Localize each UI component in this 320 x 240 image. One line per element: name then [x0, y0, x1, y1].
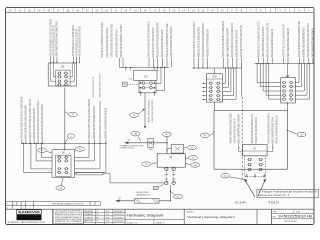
- valve 07: [243, 145, 268, 156]
- svg-text:HOSE CLAMP FITTING HOSE CLAMP: HOSE CLAMP FITTING HOSE CLAMP FITTING HO…: [307, 23, 310, 57]
- wire stub into 08: [79, 57, 81, 63]
- valve 017 port r2R: [149, 87, 153, 90]
- drain mark: [263, 174, 265, 177]
- svg-text:B1: B1: [154, 188, 156, 190]
- arrow to note left: [245, 180, 255, 197]
- left manifold line: [22, 142, 106, 144]
- valve 016 port r5R: [216, 98, 220, 101]
- svg-text:CHECK: CHECK: [84, 217, 93, 219]
- svg-text:PRESSURE FEED LINE PRESSURE FE: PRESSURE FEED LINE PRESSURE FEED LIN: [272, 29, 274, 57]
- svg-text:SWIVEL CONN 90 ADAPTER SWIVEL: SWIVEL CONN 90 ADAPTER SWIVEL CONN 90 AD…: [25, 105, 28, 139]
- svg-text:HOSE ASSY 25L GAUGE PORT HOSE: HOSE ASSY 25L GAUGE PORT HOSE ASSY 25L: [78, 26, 81, 56]
- wire stub into 08: [53, 57, 55, 63]
- balloon 16: [200, 133, 209, 138]
- bus above 015: [254, 63, 313, 65]
- svg-text:PRESSING CYLINDER HOSE PRESSIN: PRESSING CYLINDER HOSE PRESSING CYLIN: [252, 114, 254, 143]
- leader balloon 11: [287, 130, 296, 134]
- 015 right wire: [295, 94, 307, 96]
- valve 04 port r4R: [64, 171, 68, 174]
- b-box: [153, 186, 158, 189]
- valve 08 port r1L: [57, 72, 61, 75]
- valve 015: [281, 78, 296, 103]
- drawing number block: [272, 212, 314, 214]
- svg-text:MANIFOLD MOUNT LINE MANIFOLD: MANIFOLD MOUNT LINE MANIFOLD: [148, 99, 151, 122]
- 016 left stub: [203, 99, 207, 101]
- 016 left stub: [203, 86, 207, 88]
- svg-text:HOSE ASSY 25L SWING CYL HOSE A: HOSE ASSY 25L SWING CYL HOSE ASSY 25L SW…: [193, 21, 196, 57]
- valve 016 port r3L: [209, 90, 213, 93]
- valve 015 port r2L: [282, 85, 286, 88]
- svg-text:BOOM FEED LINE 25L BOOM FEED L: BOOM FEED LINE 25L BOOM FEED LINE 25L BO…: [42, 104, 44, 139]
- valve 017 port r2L: [141, 87, 145, 90]
- balloon 17: [130, 113, 139, 118]
- hose box: [134, 199, 159, 204]
- svg-text:Vertical pressing diagram: Vertical pressing diagram: [187, 215, 236, 219]
- wire 017 drop: [144, 93, 146, 128]
- svg-text:PRESSING CYLINDER HOSE PRESSIN: PRESSING CYLINDER HOSE PRESSING CYLINDE: [230, 113, 232, 143]
- svg-text:HOSE ASSY 25L FEED HOSE ASSY 2: HOSE ASSY 25L FEED HOSE ASSY 25L FEED HO…: [222, 21, 225, 57]
- valve 016 port r4R: [216, 94, 220, 97]
- junction 08 line: [64, 143, 65, 144]
- leader to balloon 18: [65, 112, 69, 114]
- 015 left wire: [257, 82, 281, 84]
- svg-text:MODEX: MODEX: [187, 212, 195, 214]
- svg-text:T019: T019: [268, 200, 279, 204]
- 016 left stub: [203, 90, 207, 92]
- valve 04 left wires: [23, 143, 25, 172]
- 015 left wire: [263, 90, 281, 92]
- svg-text:SWIVEL ELBOW ADAPTER SWIVEL EL: SWIVEL ELBOW ADAPTER SWIVEL ELBOW ADA: [312, 28, 315, 57]
- svg-text:HOSE ASSY 25L PORT A HOSE ASSY: HOSE ASSY 25L PORT A HOSE ASSY 25L PORT …: [29, 99, 32, 139]
- valve 08 port r4R: [64, 83, 68, 86]
- valve 015 port r5R: [289, 98, 293, 101]
- balloon 141: [142, 162, 151, 167]
- svg-text:SWIVEL CONN ADAPTER SWIVEL CON: SWIVEL CONN ADAPTER SWIVEL CONN ADAPT: [227, 28, 230, 57]
- svg-text:CONTROL VALVE FEED LINE CONTRO: CONTROL VALVE FEED LINE CONTROL VALVE FE…: [111, 23, 114, 57]
- valve 08 port r3R: [64, 80, 68, 83]
- svg-text:50225: 50225: [114, 217, 123, 219]
- balloon 18: [68, 112, 77, 117]
- 04 right wire: [75, 156, 90, 158]
- note box: [257, 190, 318, 198]
- svg-text:3+50225932+B: 3+50225932+B: [278, 215, 313, 219]
- valve 017 port r1L: [141, 82, 145, 85]
- valve 04 port r1L: [57, 156, 61, 159]
- SANDVIK logo: [17, 210, 42, 214]
- svg-text:HOSE ASSY 20L FEED HOSE ASSY 2: HOSE ASSY 20L FEED HOSE ASSY 20L: [233, 118, 236, 143]
- svg-text:10.02: 10.02: [106, 217, 110, 219]
- wire 015 down to enclosure: [287, 103, 289, 111]
- wire 214 drop: [166, 137, 168, 154]
- svg-text:HOSE ASSY RETURN 25L HOSE ASSY: HOSE ASSY RETURN 25L HOSE ASSY RETURN 25…: [99, 101, 102, 139]
- svg-text:CONTROL PRESSURE LINE B2 CONTR: CONTROL PRESSURE LINE B2 CONTROL PR: [76, 29, 78, 56]
- svg-text:HOSE ASSY 25L PRESSING CYL HOS: HOSE ASSY 25L PRESSING CYL HOSE ASSY 25L…: [49, 19, 52, 56]
- wire 05 drop: [169, 185, 171, 201]
- svg-text:BOOM FEED LINE 25L BOOM FEED L: BOOM FEED LINE 25L BOOM FEED LINE 25L BO: [106, 108, 108, 139]
- bottom hose line: [116, 200, 171, 202]
- 016 right wire: [223, 95, 234, 97]
- valve 04 port r2L: [57, 160, 61, 163]
- valve 015 port r3L: [282, 90, 286, 93]
- svg-text:50225: 50225: [114, 221, 123, 223]
- svg-text:DESIGN: DESIGN: [84, 211, 93, 213]
- svg-text:PRESSURE LINE PORT B PRESSURE: PRESSURE LINE PORT B PRESSURE LINE PORT: [34, 107, 36, 138]
- wire 016 down to enclosure: [213, 102, 215, 110]
- valve 04 port block: [56, 155, 71, 176]
- valve 016: [207, 74, 223, 102]
- svg-text:SANDVIK: SANDVIK: [18, 210, 41, 214]
- block 05 spool mark: [165, 178, 168, 180]
- 015 left wire: [260, 86, 281, 88]
- valve 016 port r1L: [209, 82, 213, 85]
- line to sheet note: [240, 64, 242, 97]
- balloon 21b: [188, 145, 197, 150]
- valve 04 port r2R: [64, 160, 68, 163]
- valve 015 port r4L: [282, 94, 286, 97]
- center line to manifold: [125, 142, 167, 144]
- wire stub into 08: [56, 57, 58, 63]
- svg-text:HOSE 25L RETURN LINE HOSE 25L: HOSE 25L RETURN LINE HOSE 25L RETURN LIN…: [232, 23, 234, 57]
- valve 015 port r3R: [289, 90, 293, 93]
- svg-text:1 Hoge horizontal boom+boom: 1 Hoge horizontal boom+boom: [258, 191, 317, 194]
- svg-text:SCALE 1:1: SCALE 1:1: [127, 221, 138, 224]
- valve 04 port r3L: [57, 168, 61, 171]
- balloon 27b: [174, 194, 183, 199]
- valve 08: [48, 63, 76, 86]
- leader balloon 4: [65, 138, 68, 143]
- 016 right wire: [223, 90, 231, 92]
- wire 08 to 04: [64, 87, 66, 150]
- valve 08 port r1R: [64, 72, 68, 75]
- svg-text:SHEET 2: SHEET 2: [155, 222, 164, 224]
- svg-text:Hydraulic diagram: Hydraulic diagram: [127, 214, 164, 218]
- svg-text:HOSE ASSY 20L FEED HOSE ASSY 2: HOSE ASSY 20L FEED HOSE ASSY 20L FEED H: [267, 113, 270, 143]
- balloon 214b: [76, 147, 85, 152]
- valve 017 port block: [139, 80, 156, 93]
- valve 016 port r5L: [209, 98, 213, 101]
- valve 015 port r5L: [282, 98, 286, 101]
- 015 left wire: [266, 94, 281, 96]
- svg-text:THIS DOCUMENT IS OUR PROPERTY: THIS DOCUMENT IS OUR PROPERTY: [55, 211, 82, 213]
- svg-text:REPLACES DRAWING 50225931: REPLACES DRAWING 50225931: [53, 202, 84, 205]
- valve 015 port r4R: [289, 94, 293, 97]
- enclosure boom module: [214, 111, 287, 170]
- svg-text:10.02: 10.02: [106, 221, 110, 223]
- balloon 11: [297, 132, 306, 137]
- valve 08 port r2R: [64, 75, 68, 78]
- 015 right wire: [295, 86, 301, 88]
- svg-text:50225: 50225: [114, 211, 123, 213]
- svg-text:018: 018: [129, 79, 132, 81]
- svg-text:SWIVEL CONNECTOR 90 SWIVEL CON: SWIVEL CONNECTOR 90 SWIVEL CONNECTOR 90: [263, 27, 265, 57]
- svg-text:HOSE ASSY RETURN 25L HOSE ASSY: HOSE ASSY RETURN 25L HOSE ASSY RETUR: [161, 29, 164, 57]
- block 05 ports: [165, 167, 167, 185]
- balloon 215: [38, 148, 47, 153]
- valve 07 port r1R: [258, 158, 263, 161]
- 04 right wire: [75, 172, 106, 174]
- balloon 4: [67, 134, 74, 138]
- valve 08 port r2L: [57, 75, 61, 78]
- balloon 018b: [56, 186, 65, 191]
- stub into 04: [64, 143, 66, 149]
- valve 08 internal wires: [50, 63, 52, 81]
- svg-text:HOSE ASSY 25L PORT A HOSE ASSY: HOSE ASSY 25L PORT A HOSE ASSY 25L PORT …: [266, 23, 269, 57]
- svg-text:HOSE ASSY RETURN 25L HOSE ASSY: HOSE ASSY RETURN 25L HOSE ASSY RETURN 25…: [37, 101, 40, 139]
- arrow to note right: [258, 180, 266, 196]
- svg-text:HOSE CLAMP FITTING HOSE CLAMP: HOSE CLAMP FITTING HOSE CLAMP FITTING HO…: [240, 25, 243, 57]
- valve 07 port r2R: [258, 163, 263, 166]
- block 05: [157, 154, 185, 167]
- valve 07 ports: [245, 156, 266, 177]
- valve 07 port r3L: [247, 168, 252, 171]
- balloon 20b: [191, 163, 200, 168]
- approval grid: [83, 212, 125, 214]
- svg-text:HOSE ASSY 25L LIFT CYL HOSE AS: HOSE ASSY 25L LIFT CYL HOSE ASSY 25L LIF…: [282, 24, 285, 57]
- leader balloon 17: [138, 109, 144, 114]
- svg-text:HOSE ASSY RETURN 25L HOSE ASSY: HOSE ASSY RETURN 25L HOSE ASSY RETURN 25…: [298, 21, 301, 57]
- balloon 19b: [131, 131, 140, 136]
- valve 07 port r3R: [258, 168, 263, 171]
- 04 right wire: [75, 168, 101, 170]
- svg-text:HOSE ASSY 25L PORT A HOSE ASSY: HOSE ASSY 25L PORT A HOSE ASSY 25L PORT: [152, 27, 155, 57]
- valve 015 port r1R: [289, 81, 293, 84]
- bus above 016: [193, 67, 242, 69]
- valve 016 port r2L: [209, 86, 213, 89]
- svg-text:SWIVEL CONN 90 SWIVEL CONN 90: SWIVEL CONN 90 SWIVEL CONN 90 S: [100, 73, 102, 97]
- wire stub into 08: [72, 57, 74, 63]
- valve 016 port r1R: [216, 82, 220, 85]
- svg-text:HOSE ASSY 25L LIFT CYL HOSE AS: HOSE ASSY 25L LIFT CYL HOSE ASSY 25L LIF…: [257, 21, 260, 57]
- 016 right wire: [223, 82, 226, 84]
- svg-text:017: 017: [144, 75, 149, 79]
- balloon 14: [189, 156, 198, 161]
- drain mark: [254, 174, 256, 177]
- disclaimer text: [54, 209, 84, 223]
- svg-text:2 /2: 2 /2: [292, 212, 300, 214]
- svg-text:HOSE ASSY 25L CYLINDER HOSE AS: HOSE ASSY 25L CYLINDER HOSE ASSY 25L CYL…: [21, 97, 24, 139]
- svg-text:CONNECTION 25L: CONNECTION 25L: [120, 148, 135, 150]
- valve 017: [134, 70, 158, 80]
- svg-text:HOSE ASSY 20L FEED HOSE ASSY 2: HOSE ASSY 20L FEED HOSE ASSY 20L: [255, 117, 258, 143]
- svg-text:HOSE ASSY 25L CYLINDER HOSE AS: HOSE ASSY 25L CYLINDER HOSE ASSY 25L CYL…: [166, 23, 169, 57]
- valve 016 port r4L: [209, 94, 213, 97]
- svg-text:50225932: 50225932: [284, 221, 297, 223]
- svg-text:HOSE ASSY 25L CYLINDER HOSE AS: HOSE ASSY 25L CYLINDER HOSE ASSY 25L CYL…: [101, 22, 104, 57]
- svg-text:CONTROL PRESSURE LINE A2 CONTR: CONTROL PRESSURE LINE A2 CONTROL PRESSUR: [72, 25, 75, 56]
- valve 08 port r4L: [57, 83, 61, 86]
- block 05 spool mark: [172, 178, 175, 180]
- svg-text:SWIVEL CONNECTOR 90 SWIVEL CON: SWIVEL CONNECTOR 90 SWIVEL CONNECTOR: [288, 28, 290, 57]
- wire stub into 08: [50, 57, 52, 63]
- svg-text:SWIVEL CONN 90 ADAPTER SWIVEL: SWIVEL CONN 90 ADAPTER SWIVEL CONN 90 AD: [170, 26, 173, 57]
- valve 08 port r3L: [57, 80, 61, 83]
- valve 07 port r2L: [247, 163, 252, 166]
- svg-text:swing see sheet no. 1: swing see sheet no. 1: [258, 194, 290, 197]
- valve 016 port r3R: [216, 90, 220, 93]
- svg-text:SWIVEL CONN ADAPTER SWIVEL CON: SWIVEL CONN ADAPTER SWIVEL CONN A: [272, 117, 275, 143]
- svg-text:PRESSURE LINE PORT P PRESSURE: PRESSURE LINE PORT P PRESSURE LINE P: [207, 29, 209, 57]
- 016 left stub: [203, 82, 207, 84]
- valve 017 port r1R: [149, 82, 153, 85]
- svg-text:PRESSURE LINE PORT B PRESSURE: PRESSURE LINE PORT B PRESSURE LINE PORT …: [158, 22, 160, 57]
- svg-text:2: 2: [13, 203, 14, 205]
- valve 04 port r1R: [64, 156, 68, 159]
- wire hose to 05: [103, 173, 110, 175]
- leader 018 to valve: [127, 84, 139, 86]
- svg-text:PRESSURE LINE PORT B PRESSURE: PRESSURE LINE PORT B PRESSURE LINE PORT …: [94, 106, 96, 139]
- 016 left stub: [203, 95, 207, 97]
- valve 015 port r1L: [282, 81, 286, 84]
- svg-text:BOOM SWING FEED LINE BOOM SWIN: BOOM SWING FEED LINE BOOM SWING FEED LI: [304, 27, 306, 57]
- svg-text:SWIVEL CONNECTOR 90 DEG SWIVEL: SWIVEL CONNECTOR 90 DEG SWIVEL CONNECTOR…: [57, 21, 59, 56]
- relief valve block: [171, 144, 184, 153]
- hose rect right of 04: [76, 173, 103, 175]
- svg-text:PRESSING CYLINDER HOSE PRESSIN: PRESSING CYLINDER HOSE PRESSING CYLI: [277, 115, 279, 143]
- 016 right wire: [223, 99, 237, 101]
- svg-text:K.L: K.L: [96, 221, 98, 223]
- svg-text:HOSE 20L EXTENSION HOSE 20L EX: HOSE 20L EXTENSION HOSE 20L EXTENSION HO…: [203, 23, 205, 57]
- drain mark: [246, 174, 248, 177]
- svg-text:016: 016: [213, 76, 218, 79]
- svg-text:HOSE ASSY 25L PORT A HOSE ASSY: HOSE ASSY 25L PORT A HOSE ASSY 25L PORT …: [88, 99, 91, 139]
- svg-text:CONNECTION 25L CONNECTION 25L: CONNECTION 25L CONNECTION 25L: [152, 99, 154, 123]
- leader balloon 16: [210, 133, 214, 135]
- block 05 spool mark: [172, 174, 175, 176]
- svg-text:10.02: 10.02: [106, 211, 110, 213]
- 015 right wire: [295, 98, 309, 100]
- 015 right wire: [295, 90, 304, 92]
- balloon 214: [162, 132, 171, 137]
- valve 04 port r3R: [64, 168, 68, 171]
- valve 08 port block: [56, 70, 70, 86]
- block 05 spool mark: [165, 174, 168, 176]
- title block: [6, 201, 101, 203]
- component G2B: [148, 138, 154, 147]
- wire stub into 08: [76, 57, 78, 63]
- svg-text:G14f: G14f: [235, 200, 246, 204]
- leader balloon 21a: [230, 177, 245, 180]
- 016 right wire: [223, 86, 229, 88]
- svg-text:BOOM SLIDE PIECE LINE BOOM SLI: BOOM SLIDE PIECE LINE BOOM SLIDE PIECE: [198, 27, 200, 57]
- valve 016 port r2R: [216, 86, 220, 89]
- bus above 017: [120, 66, 170, 68]
- valve 04: [52, 150, 75, 178]
- svg-text:ASSEMBLY 4X: ASSEMBLY 4X: [137, 194, 152, 197]
- svg-text:PRESSURE LINE PORT B PRESSURE: PRESSURE LINE PORT B PRESSURE LINE PORT …: [121, 24, 123, 57]
- valve 07 port r1L: [247, 158, 252, 161]
- valve 04 port r4L: [57, 171, 61, 174]
- balloon 21a: [221, 173, 230, 178]
- 015 left wire: [269, 98, 281, 100]
- svg-text:SWIVEL CONN ADAPTER SWIVEL CON: SWIVEL CONN ADAPTER SWIVEL CONN ADAPT: [238, 114, 241, 143]
- svg-text:10.02: 10.02: [106, 214, 110, 216]
- svg-text:BOOM SLIDE PIECE BOOM SLIDE PI: BOOM SLIDE PIECE BOOM SLIDE PIECE B: [237, 30, 239, 57]
- title block top line: [6, 208, 315, 210]
- 04 right wire: [75, 160, 95, 162]
- svg-text:50225: 50225: [114, 214, 123, 216]
- svg-text:CONTROL VALVE FEED LINE CONTRO: CONTROL VALVE FEED LINE CONTROL VALVE FE…: [148, 21, 151, 57]
- connector box 018: [123, 82, 128, 86]
- svg-text:HOSE ASSY 20L HOSE ASSY 20L: HOSE ASSY 20L HOSE ASSY 20L: [92, 76, 95, 98]
- valve 015 port r2R: [289, 85, 293, 88]
- svg-text:HOSE ASSY 25L RETURN LINE HOSE: HOSE ASSY 25L RETURN LINE HOSE ASSY 25L: [53, 25, 56, 56]
- svg-text:HOSE ASSY 25L PORT A HOSE ASSY: HOSE ASSY 25L PORT A HOSE ASSY 25L P: [115, 29, 118, 57]
- valve 017 solenoid caps: [140, 82, 142, 84]
- svg-text:SWIVEL CONN 90 ADAPTER SWIVEL: SWIVEL CONN 90 ADAPTER SWIVEL CONN 90 A: [106, 27, 109, 57]
- enclosure wires to valve 07: [238, 143, 240, 151]
- svg-text:T.K: T.K: [96, 211, 98, 213]
- 015 right wire: [295, 82, 299, 84]
